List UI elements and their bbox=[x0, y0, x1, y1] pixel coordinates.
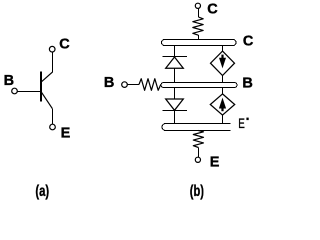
resistor RE bbox=[193, 131, 203, 148]
wire emitter (a) bbox=[52, 109, 54, 124]
wire diode D2 top bbox=[174, 88, 176, 100]
svg-text:C: C bbox=[243, 33, 254, 49]
wire source I2 bottom bbox=[222, 115, 224, 123]
current source I2 (arrow up) bbox=[210, 94, 234, 115]
svg-text:B: B bbox=[104, 75, 114, 91]
svg-text:C: C bbox=[59, 36, 70, 52]
wire collector (a) bbox=[52, 52, 54, 73]
resistor RC bbox=[193, 17, 203, 35]
wire base (a) bbox=[17, 91, 41, 93]
terminal E (a) bbox=[50, 124, 56, 130]
wire emitter lead (b) bbox=[198, 148, 200, 158]
node bar B bbox=[161, 83, 237, 88]
svg-text:E: E bbox=[210, 155, 220, 171]
wire source I1 top bbox=[222, 46, 224, 52]
svg-text:E: E bbox=[61, 125, 71, 141]
label E' node bbox=[238, 115, 248, 131]
svg-text:E: E bbox=[238, 115, 245, 131]
wire base lead (b) bbox=[127, 84, 139, 86]
svg-text:(a): (a) bbox=[35, 183, 49, 200]
wire RC to node C bbox=[198, 35, 200, 40]
resistor RB bbox=[139, 79, 161, 91]
terminal B (a) bbox=[12, 88, 18, 94]
wire diode D1 top bbox=[174, 46, 176, 57]
terminal C (a) bbox=[49, 46, 55, 52]
node bar C bbox=[162, 40, 237, 46]
terminal B (b) bbox=[122, 82, 128, 88]
terminal E (b) bbox=[195, 157, 200, 162]
svg-text:(b): (b) bbox=[190, 183, 204, 200]
transistor Q1 body bbox=[41, 72, 53, 109]
terminal C (b) bbox=[195, 3, 200, 8]
svg-text:B: B bbox=[4, 73, 14, 89]
svg-text:B: B bbox=[242, 75, 252, 91]
wire collector lead (b) bbox=[198, 9, 200, 18]
current source I1 (arrow down) bbox=[211, 51, 235, 75]
wire source I2 top bbox=[222, 88, 224, 95]
wire diode D2 bottom bbox=[174, 111, 176, 124]
svg-text:C: C bbox=[207, 1, 218, 17]
wire source I1 bottom bbox=[222, 76, 224, 83]
diode D1 (cathode up) bbox=[163, 57, 188, 69]
diode D2 (cathode down) bbox=[163, 99, 188, 111]
wire diode D1 bottom bbox=[174, 68, 176, 82]
node bar E' bbox=[162, 124, 230, 131]
